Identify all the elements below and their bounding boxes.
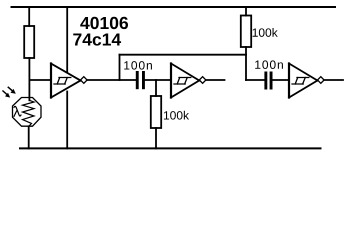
wire VDD drop to gate U1A (66, 7, 68, 72)
wire from top rail to resistor R1 (28, 7, 30, 26)
wire node B to capacitor C2 (246, 79, 265, 81)
wire top supply rail (12, 6, 336, 8)
wire U1B output stub (206, 79, 225, 81)
wire feedback rail (120, 54, 247, 56)
op-amp U1B schmitt inverter triangle (171, 64, 199, 98)
wire R3 to node B (245, 47, 247, 80)
label 100k R2 (164, 111, 189, 120)
capacitor C1 plates (136, 71, 145, 89)
wire C1 to gate U1B input (145, 79, 171, 81)
wire from R1 to LDR (28, 58, 30, 100)
hysteresis symbol U1B (174, 78, 191, 85)
wire feedback riser at node A (119, 55, 121, 80)
photoresistor LDR zigzag (23, 100, 35, 126)
bubble U1C output (318, 77, 325, 84)
light arrow 2 (3, 91, 10, 98)
wire from LDR to bottom rail (28, 126, 30, 148)
label 40106 (80, 17, 128, 29)
op-amp U1C schmitt inverter triangle (289, 64, 318, 98)
photoresistor LDR body octagon (13, 98, 42, 127)
label 74c14 (73, 33, 121, 45)
resistor R3 100k (241, 16, 251, 48)
wire U1A output to capacitor C1 (87, 79, 136, 81)
bubble U1B output (199, 77, 206, 84)
resistor R1 (24, 26, 34, 58)
wire R2 to bottom rail (155, 128, 157, 148)
light arrow 1 (8, 87, 16, 94)
label 100n C2 (255, 60, 283, 69)
hysteresis symbol U1A (54, 78, 71, 85)
wire bottom ground rail (20, 147, 321, 149)
hysteresis symbol U1C (292, 78, 309, 85)
node divider junction / wire to gate U1A input (29, 79, 50, 81)
photoresistor lambda glyph (14, 106, 21, 116)
label 100n C1 (124, 61, 152, 70)
bubble U1A output (81, 77, 88, 84)
capacitor C2 plates (264, 72, 272, 90)
wire U1C output (324, 79, 343, 81)
resistor R2 100k (151, 96, 161, 128)
wire C2 to gate U1C input (273, 79, 289, 81)
wire VSS from gate U1A to bottom rail (66, 92, 68, 149)
op-amp U1A schmitt inverter triangle (51, 64, 81, 98)
label 100k R3 (253, 28, 278, 37)
wire top rail to resistor R3 (245, 7, 247, 16)
wire junction to resistor R2 (155, 80, 157, 96)
